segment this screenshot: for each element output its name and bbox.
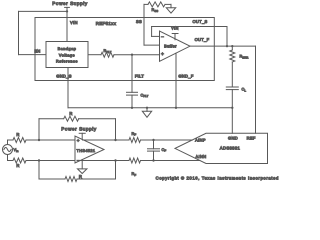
- svg-text:GND: GND: [228, 135, 238, 140]
- resistor R_F (top output): [129, 138, 141, 143]
- ground (R_SS): [166, 8, 175, 13]
- svg-text:CFLT: CFLT: [141, 93, 149, 98]
- wire source bottom: [7, 155, 9, 161]
- svg-text:+: +: [161, 52, 164, 58]
- buffer supply bar: [172, 33, 178, 35]
- resistor R_F (bottom output): [129, 158, 141, 163]
- node bottom output feedback tap: [114, 159, 116, 161]
- wire OUT_S down to OUT_F: [226, 27, 228, 47]
- wire GND_F vertical: [175, 53, 177, 108]
- svg-text:FILT: FILT: [135, 73, 145, 78]
- ground stem (THS4521): [81, 160, 83, 169]
- wire R to amp - input: [26, 160, 75, 162]
- node top input feedback tap: [38, 139, 40, 141]
- resistor R (bottom input): [13, 158, 26, 163]
- wire to R_ESR: [231, 46, 233, 50]
- svg-text:OUT_F: OUT_F: [195, 37, 210, 42]
- capacitor C_F top plate: [148, 148, 160, 150]
- resistor R (top input): [13, 138, 26, 143]
- IC ADS8881: [175, 133, 268, 163]
- svg-text:R: R: [79, 174, 82, 179]
- wire source top: [7, 140, 9, 145]
- svg-text:Power Supply: Power Supply: [52, 1, 88, 6]
- wire R to amp + input: [26, 139, 75, 141]
- power supply bar symbol (top): [65, 6, 70, 8]
- op-amp U buffer triangle: [160, 31, 191, 61]
- wire top feedback vertical left: [38, 119, 40, 140]
- resistor R (bottom feedback): [65, 177, 77, 182]
- svg-text:Voltage: Voltage: [59, 53, 75, 57]
- resistor R (top feedback): [64, 116, 79, 121]
- wire bottom output: [79, 160, 129, 162]
- svg-text:R: R: [69, 111, 72, 116]
- svg-text:GND_F: GND_F: [178, 73, 194, 78]
- svg-text:EN: EN: [34, 49, 40, 54]
- node ground symbol tap: [146, 107, 148, 109]
- wire top feedback left: [39, 118, 64, 120]
- svg-text:−: −: [77, 158, 80, 163]
- svg-text:Reference: Reference: [56, 60, 78, 64]
- op-amp U THS4521 triangle: [75, 136, 104, 163]
- node OUT_S/OUT_F junction: [226, 45, 228, 47]
- svg-text:Buffer: Buffer: [164, 44, 177, 49]
- resistor R_ESR: [230, 50, 235, 62]
- wire to R top input: [8, 139, 14, 141]
- wire R_ESR to C_L: [231, 62, 233, 87]
- wire C_F bottom stem: [153, 151, 155, 160]
- IC REF61xx box: [35, 18, 214, 81]
- source V_in circle: [3, 145, 13, 155]
- ground (THS4521): [78, 169, 87, 174]
- block Bandgap Voltage Reference: [46, 42, 88, 68]
- svg-text:VIN: VIN: [70, 20, 78, 25]
- wire top output: [83, 139, 130, 141]
- node power supply junction: [66, 10, 68, 12]
- wire C_L to ADC GND: [231, 90, 233, 134]
- wire to AINP: [141, 139, 193, 141]
- svg-text:RF: RF: [132, 132, 137, 137]
- node GND_F to ground line: [175, 107, 177, 109]
- svg-text:REF: REF: [247, 135, 256, 140]
- wire VIN supply vertical: [66, 7, 68, 41]
- node C_FLT to ground line: [131, 107, 133, 109]
- svg-text:CF: CF: [162, 148, 167, 153]
- wire EN vertical: [18, 11, 20, 54]
- wire SS vertical: [143, 4, 145, 45]
- svg-text:ADS8881: ADS8881: [220, 146, 241, 151]
- wire to AINN: [141, 160, 200, 162]
- wire top feedback right: [79, 118, 116, 120]
- power supply stem (THS4521): [81, 133, 83, 139]
- resistor R_SS: [148, 2, 165, 7]
- svg-text:RSS: RSS: [152, 8, 159, 13]
- wire FILT vertical: [131, 55, 133, 93]
- svg-text:Power Supply: Power Supply: [61, 127, 97, 132]
- capacitor C_FLT top plate: [127, 91, 138, 93]
- svg-text:GND_S: GND_S: [56, 73, 72, 78]
- svg-text:R: R: [16, 163, 19, 168]
- wire R_FLT to buffer +: [114, 54, 160, 56]
- svg-text:+: +: [77, 138, 80, 143]
- node bottom input feedback tap: [38, 159, 40, 161]
- wire bottom feedback vertical right: [115, 161, 117, 180]
- wire R_SS to ground: [165, 3, 171, 5]
- svg-text:Vin: Vin: [14, 148, 19, 153]
- svg-text:OUT_S: OUT_S: [192, 19, 207, 24]
- wire feedback vertical: [151, 27, 153, 37]
- node C_F top tap: [152, 139, 154, 141]
- node FILT tap: [131, 54, 133, 56]
- node R_ESR branch: [231, 45, 233, 47]
- wire bottom feedback left: [39, 178, 65, 180]
- svg-text:Copyright © 2016, Texas Instru: Copyright © 2016, Texas Instruments Inco…: [156, 176, 279, 181]
- wire REF vertical: [255, 46, 257, 133]
- svg-text:−: −: [161, 34, 164, 40]
- capacitor C_FLT bottom plate: [127, 94, 138, 96]
- node ground line to ADC GND: [231, 107, 233, 109]
- capacitor C_L top plate: [226, 86, 238, 88]
- sine symbol: [4, 148, 11, 152]
- buffer supply stem: [174, 34, 176, 40]
- svg-text:RESR: RESR: [240, 55, 249, 60]
- power supply bar (THS4521): [79, 132, 85, 134]
- wire bottom feedback right: [77, 178, 116, 180]
- svg-text:AINN: AINN: [196, 154, 207, 159]
- wire C_F top stem: [153, 140, 155, 149]
- wire SS to R_SS: [144, 3, 148, 5]
- ground stem (common): [146, 108, 148, 111]
- wire power to EN horizontal: [19, 10, 68, 12]
- svg-text:Bandgap: Bandgap: [58, 47, 77, 51]
- node top output feedback tap: [114, 139, 116, 141]
- wire bandgap to R_FLT: [88, 54, 101, 56]
- wire OUT_S: [152, 26, 227, 28]
- svg-text:R: R: [16, 132, 19, 137]
- node C_F bottom tap: [152, 159, 154, 161]
- svg-text:CL: CL: [242, 88, 247, 93]
- wire OUT_F: [190, 45, 256, 47]
- svg-text:AINP: AINP: [195, 138, 206, 143]
- svg-text:THS4521: THS4521: [77, 148, 96, 153]
- capacitor C_F bottom plate: [148, 150, 160, 152]
- wire GND_S vertical: [67, 68, 69, 108]
- wire common ground line: [68, 107, 232, 109]
- wire to R bottom input: [8, 160, 14, 162]
- wire C_FLT to ground line: [131, 95, 133, 108]
- svg-text:REF61xx: REF61xx: [96, 21, 117, 26]
- wire bottom feedback vertical left: [38, 161, 40, 180]
- resistor R_FLT (internal): [101, 52, 114, 57]
- ground (common): [142, 111, 151, 117]
- ground stem (R_SS): [170, 4, 172, 7]
- svg-text:RFLT: RFLT: [104, 49, 112, 54]
- wire top feedback vertical right: [115, 119, 117, 140]
- wire buffer minus feedback: [152, 35, 160, 37]
- svg-text:SS: SS: [136, 19, 142, 24]
- svg-text:RF: RF: [132, 172, 137, 177]
- svg-text:VIN: VIN: [171, 26, 178, 30]
- capacitor C_L bottom plate: [226, 89, 238, 91]
- wire SS to buffer: [144, 44, 160, 46]
- wire EN to bandgap: [19, 54, 47, 56]
